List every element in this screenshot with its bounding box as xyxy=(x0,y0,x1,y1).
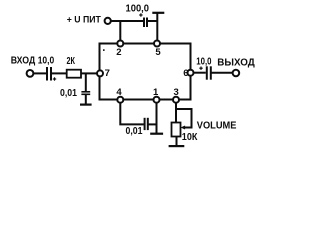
pin 6 xyxy=(188,70,194,76)
wire pin6 to output cap xyxy=(194,72,206,74)
plus of output capacitor xyxy=(199,67,202,70)
input terminal xyxy=(27,70,34,77)
pin 4 xyxy=(117,97,123,103)
wire pin 1 down to ground xyxy=(156,103,158,134)
wire pot to ground xyxy=(176,136,178,146)
ground (top) xyxy=(152,12,164,14)
svg-text:10,0: 10,0 xyxy=(196,56,212,67)
wire cap to resistor xyxy=(51,72,67,74)
svg-text:5: 5 xyxy=(155,47,161,58)
pin 5 xyxy=(154,41,160,47)
pin 3 xyxy=(173,97,179,103)
op-amp IC body xyxy=(100,44,191,100)
wire cap to pin1 riser xyxy=(148,123,157,125)
wire junction down to 0,01 xyxy=(85,73,87,91)
svg-text:+ U ПИТ: + U ПИТ xyxy=(67,15,101,26)
plus of input capacitor xyxy=(53,77,56,80)
svg-text:7: 7 xyxy=(105,68,110,79)
resistor 2K body xyxy=(67,70,81,78)
svg-text:4: 4 xyxy=(116,87,122,98)
wiper arrowhead xyxy=(181,126,186,130)
ground (pot) xyxy=(169,145,185,147)
wire cap to ground xyxy=(85,94,87,104)
svg-text:10,0: 10,0 xyxy=(38,55,55,66)
capacitor 100,0 plates xyxy=(143,18,145,28)
pin 1 xyxy=(154,97,160,103)
capacitor 10,0 output plates xyxy=(206,66,208,79)
wire cap to ground riser xyxy=(147,20,157,22)
wire to pin 2 xyxy=(119,21,121,40)
output terminal xyxy=(233,70,240,77)
svg-text:6: 6 xyxy=(183,68,188,79)
ground (input 0,01) xyxy=(80,103,92,105)
pin 2 xyxy=(117,41,123,47)
svg-text:2К: 2К xyxy=(67,56,76,67)
pin 7 xyxy=(97,70,103,76)
wire riser to pin 5 xyxy=(156,13,158,40)
plus of capacitor 100,0 xyxy=(139,13,142,16)
wire pin 3 down to pot xyxy=(175,103,177,123)
ground (pin 1) xyxy=(150,133,163,135)
wiper wire xyxy=(176,109,192,128)
wire resistor to pin 7 xyxy=(81,72,97,74)
marker dot xyxy=(103,49,105,51)
svg-text:1: 1 xyxy=(153,87,159,98)
wire pin 4 down xyxy=(120,103,144,125)
wire output cap to terminal xyxy=(211,72,233,74)
svg-text:3: 3 xyxy=(174,87,179,98)
potentiometer 10K body xyxy=(172,123,181,137)
svg-text:10К: 10К xyxy=(182,132,198,143)
svg-text:100,0: 100,0 xyxy=(126,4,150,15)
svg-text:ВХОД: ВХОД xyxy=(11,55,36,66)
capacitor 0,01 plates xyxy=(81,91,90,93)
svg-text:ВЫХОД: ВЫХОД xyxy=(217,58,255,69)
svg-text:VOLUME: VOLUME xyxy=(197,120,237,131)
svg-text:2: 2 xyxy=(116,47,121,58)
wire supply rail xyxy=(111,20,144,22)
svg-text:0,01: 0,01 xyxy=(126,126,143,137)
svg-text:0,01: 0,01 xyxy=(60,88,77,99)
capacitor 10,0 input plates xyxy=(46,67,48,81)
supply terminal +Uпит xyxy=(105,18,111,24)
wire input xyxy=(33,72,46,74)
capacitor 0,01 bottom plates xyxy=(144,118,146,130)
